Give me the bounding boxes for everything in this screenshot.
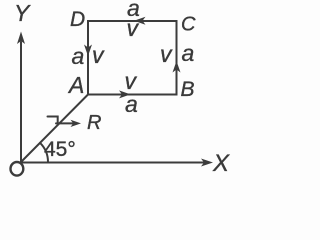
X axis xyxy=(21,162,205,164)
svg-text:X: X xyxy=(212,150,230,177)
diagonal OA xyxy=(21,95,88,163)
svg-text:v: v xyxy=(160,41,173,67)
svg-text:v: v xyxy=(92,42,105,68)
45 deg arc xyxy=(40,143,48,162)
X axis arrowhead (right) xyxy=(201,159,213,167)
Y axis arrowhead (up) xyxy=(17,32,25,45)
origin O xyxy=(11,162,24,176)
svg-text:a: a xyxy=(125,91,138,117)
R arrowhead (right) xyxy=(71,120,82,127)
svg-text:v: v xyxy=(127,15,140,41)
svg-text:45°: 45° xyxy=(44,138,76,161)
svg-text:a: a xyxy=(182,40,195,66)
Y axis xyxy=(20,42,22,162)
square right edge arrowhead (up) xyxy=(173,61,181,73)
square top edge arrowhead (left) xyxy=(134,17,146,25)
vector R shaft xyxy=(56,122,73,124)
square bottom edge arrowhead (right) xyxy=(119,90,131,98)
right-angle mark on diagonal xyxy=(48,117,58,123)
svg-text:B: B xyxy=(181,78,195,101)
svg-text:C: C xyxy=(181,14,196,36)
svg-text:A: A xyxy=(67,72,84,98)
square left edge arrowhead (down) xyxy=(84,45,92,57)
svg-text:a: a xyxy=(72,43,85,69)
square ABCD xyxy=(88,21,177,95)
svg-text:Y: Y xyxy=(14,0,31,26)
svg-text:R: R xyxy=(87,112,101,134)
svg-text:D: D xyxy=(70,8,85,31)
